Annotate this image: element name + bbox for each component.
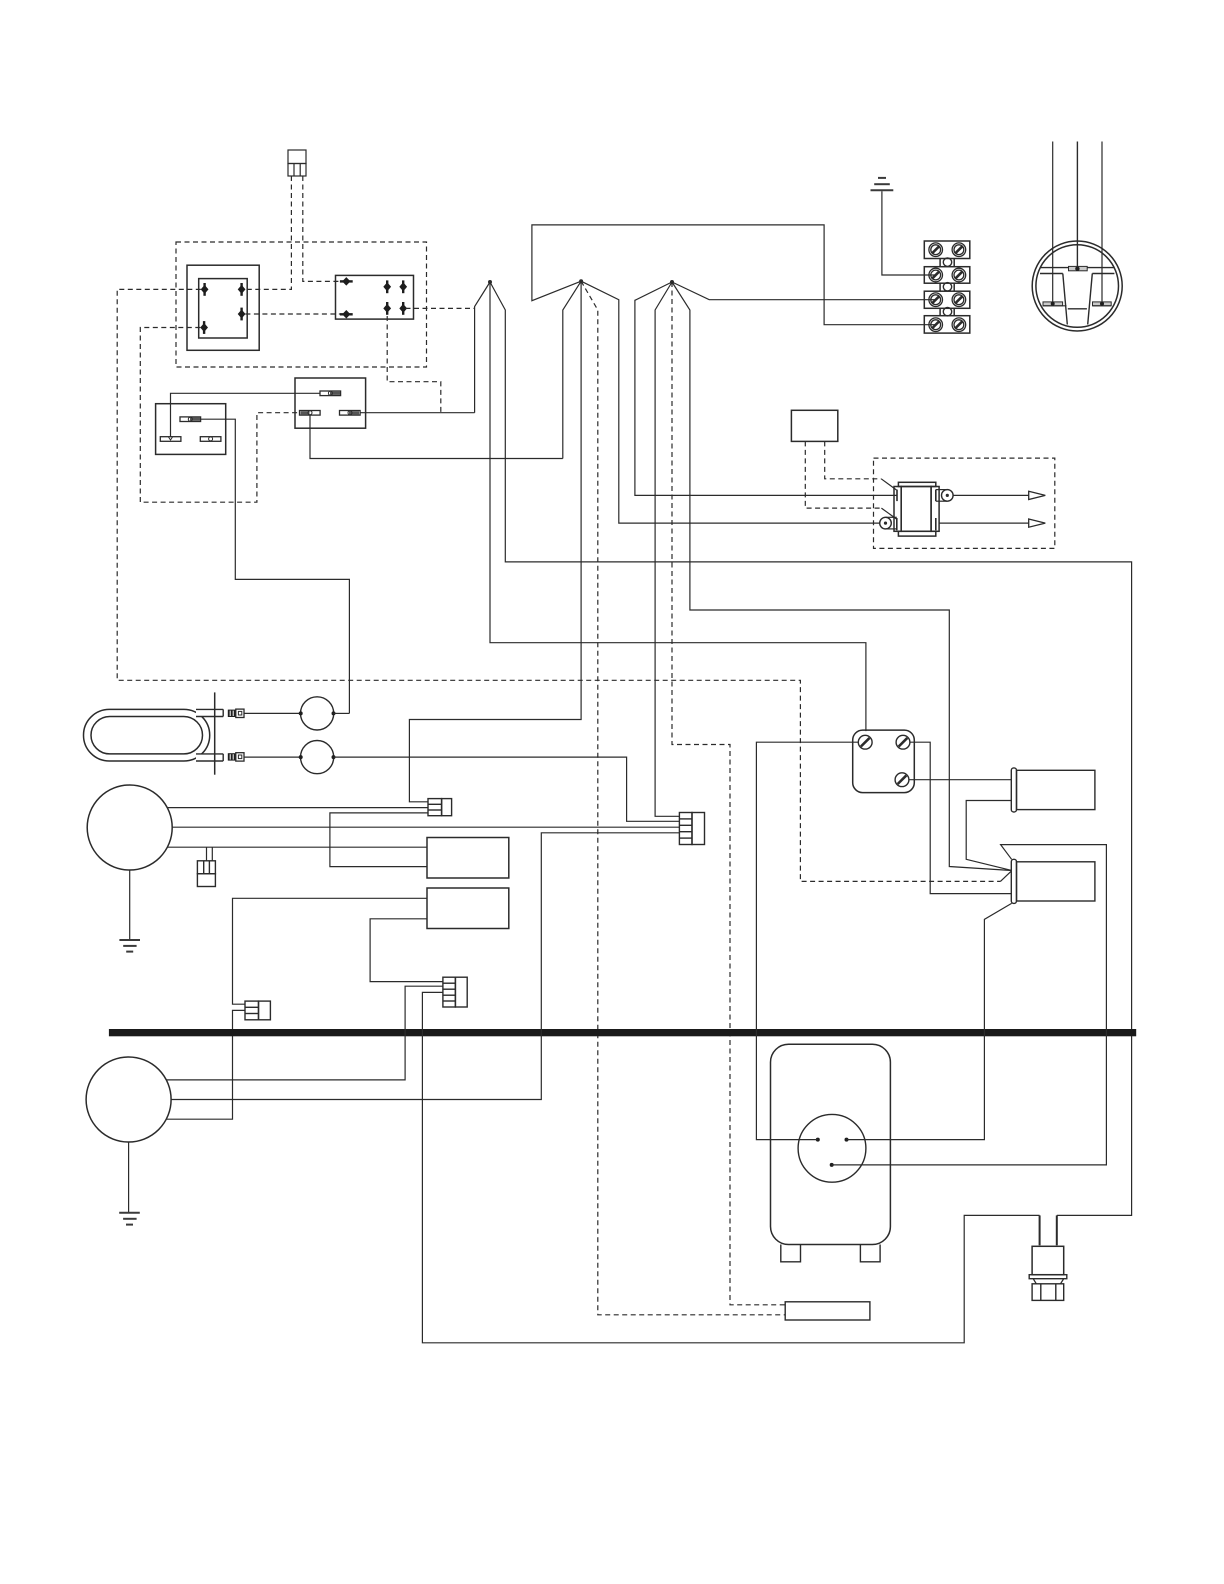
relay pin right-bottom	[935, 518, 937, 530]
dashed enclosure (ignition module group)	[176, 242, 427, 367]
diode pin TL	[202, 283, 208, 296]
ignition wire terminal dot left	[1051, 302, 1055, 306]
wire diag into relay coil pin lower	[881, 508, 896, 519]
lamp connector J4	[197, 861, 215, 887]
fuse holder F1 circle	[301, 697, 334, 730]
capacitor C2 plate	[1011, 859, 1016, 903]
wire HL1 top to connector J2 pin2	[168, 807, 428, 809]
A1 right line to charger plug	[490, 282, 1132, 1215]
spade connector upper	[228, 709, 244, 717]
starter solenoid S1	[853, 730, 915, 793]
regulator pin right-4	[400, 302, 406, 315]
wire SW2 bottom-right to harness arrow A1	[360, 412, 475, 414]
wire solenoid TR to capacitor C2 bottom	[910, 742, 1012, 893]
relay pin left-top	[896, 490, 898, 502]
ignition wire center	[1076, 142, 1078, 269]
relay output wire top	[953, 494, 1029, 496]
A2 center line to connector J2	[409, 281, 581, 802]
TB1 screw r4-left	[929, 318, 943, 332]
F2 junction dot right	[332, 755, 336, 759]
solenoid screw TR	[896, 735, 910, 749]
fuel tank foot left	[781, 1245, 801, 1262]
ignition terminal center pad	[1069, 266, 1088, 270]
TB1 screw r1-left	[929, 243, 943, 257]
connector J5 (3-pin)	[245, 1001, 270, 1020]
wire HL1 middle to connector J3 pin3	[172, 826, 679, 828]
SW1 terminal bottom-right	[200, 437, 221, 442]
regulator pin left-top	[340, 278, 353, 285]
regulator pin right-2	[400, 280, 406, 293]
capacitor C1 plate	[1011, 768, 1016, 812]
TB1 screw r3-right	[952, 293, 966, 307]
A2 dashed line to fuse link	[581, 281, 785, 1315]
connector J3 (5-pin)	[679, 813, 704, 845]
harness arrow A1 apex	[488, 280, 492, 284]
switch box SW2	[295, 378, 366, 428]
charger plug P1 flange	[1029, 1275, 1067, 1279]
TB1 spacer hole 2	[943, 283, 951, 291]
wire SW2 bottom-left to harness arrow A2	[310, 415, 563, 458]
ignition wire right	[1101, 142, 1103, 304]
wire regulator right-4 to harness arrow A1 (dashed)	[406, 307, 475, 309]
capacitor C2 body	[1017, 862, 1095, 901]
HL1 ground stem	[129, 870, 131, 940]
wire TL1 top to connector J6 pin2	[166, 986, 443, 1080]
steering wheel inner ring	[1036, 245, 1119, 328]
regulator pin right-3	[384, 302, 390, 315]
F2 junction dot left	[299, 755, 303, 759]
fuel gauge dot right	[845, 1138, 849, 1142]
diode pin TR	[239, 283, 245, 296]
wire SW1 top-center to horn circuit (down-right-down)	[201, 419, 350, 713]
diode pin BR	[239, 308, 245, 321]
A1 center line to starter solenoid	[490, 282, 866, 731]
wire M1 pin2 to relay coil (dashed)	[825, 441, 882, 478]
A3 center dashed line to fuse link	[672, 282, 785, 1305]
solenoid screw BR	[895, 773, 909, 787]
wire diode TL to capacitor C2 (long dashed left loop)	[117, 289, 1000, 881]
tail lamp TL1 circle	[86, 1057, 171, 1142]
ignition column bottom bar	[1068, 308, 1087, 310]
A2 left line from SW2	[563, 281, 581, 458]
regulator pin right-1	[384, 280, 390, 293]
wire TL1 middle to connector J3 pin4	[171, 833, 679, 1100]
terminal strip TB1	[924, 241, 970, 333]
firewall line	[214, 692, 216, 774]
ignition switch second bar left	[1040, 273, 1063, 275]
TB1 spacer hole 1	[943, 258, 951, 266]
fuel tank foot right	[860, 1245, 880, 1262]
wire solenoid BR to capacitor C1	[909, 779, 1012, 781]
wire J1 pin1 to diode module (dashed)	[244, 176, 291, 289]
relay pin left-bottom	[896, 518, 898, 530]
solenoid screw TL	[858, 735, 872, 749]
wire regulator right-3 down (dashed)	[387, 316, 441, 412]
wire diode BL to switch SW2 (dashed)	[140, 328, 299, 503]
regulator pin left-bottom	[340, 311, 353, 318]
A3 far-right line to terminal strip row3	[672, 282, 936, 300]
TB1 screw r4-right	[952, 318, 966, 332]
connector J2 (3-pin)	[428, 799, 452, 816]
SW2 terminal bottom-right	[340, 411, 361, 416]
wire G1 to terminal strip row2	[882, 191, 936, 275]
ground symbol G3	[119, 1213, 140, 1225]
harness arrow A3 apex	[670, 280, 674, 284]
regulator module U1	[336, 275, 414, 319]
TB1 spacer hole 3	[943, 308, 951, 316]
SW1 terminal top-center	[180, 417, 201, 422]
relay eyelet top-right	[936, 490, 953, 502]
wire C1 lower terminal to C2 top	[966, 801, 1011, 871]
ignition switch second bar right	[1092, 273, 1114, 275]
wire B2 upper to connector J5	[233, 898, 428, 1004]
relay K1 body	[894, 482, 939, 536]
SW2 terminal bottom-left	[300, 411, 321, 416]
headlight HL1 circle	[87, 785, 172, 870]
ground symbol G1 (top right, inverted)	[871, 178, 894, 190]
ground symbol G2	[119, 940, 140, 952]
wire gauge right to capacitor C2 bottom	[847, 903, 1012, 1139]
spade connector lower	[228, 753, 244, 761]
wire gauge left to solenoid TL	[756, 742, 858, 1139]
TB1 screw r2-left	[929, 268, 943, 282]
wire spade lower to fuse holder F2	[244, 756, 300, 758]
wire J5 pin2 to tail lamp TL1	[166, 1010, 245, 1119]
charger plug P1 prong right	[1056, 1215, 1058, 1245]
capacitor C1 body	[1017, 770, 1095, 809]
wire F2 to connector J3 pin2	[334, 757, 680, 821]
fuse holder F2 circle	[301, 741, 334, 774]
A3 far-left line to relay input	[635, 282, 897, 495]
headlamp element loop inner	[91, 717, 203, 754]
wire F1 right side	[334, 712, 350, 714]
wire J2 pin3 loop to control box B1	[330, 813, 428, 867]
relay eyelet bottom-left	[880, 517, 897, 529]
A1 left line	[475, 282, 490, 413]
switch box SW1	[156, 404, 226, 455]
TL1 ground stem	[128, 1142, 130, 1213]
F1 junction dot right	[332, 711, 336, 715]
ignition terminal right pad	[1093, 302, 1112, 306]
relay dashed enclosure	[874, 458, 1055, 548]
wire diode TR to regulator BL (dashed)	[245, 313, 340, 315]
ignition wire left	[1052, 142, 1054, 304]
charger plug P1 prong left	[1039, 1215, 1041, 1245]
relay output arrowhead top	[1029, 491, 1046, 499]
ignition column right side	[1088, 274, 1093, 325]
fuse link FL1	[785, 1302, 870, 1320]
A2 right line to relay coil	[581, 281, 880, 523]
relay output wire bottom	[939, 522, 1029, 524]
SW1 terminal bottom-left	[160, 437, 181, 442]
wire diag into relay coil pin upper	[881, 479, 896, 490]
charger plug P1 body	[1032, 1246, 1064, 1274]
headlamp loop opening mask	[196, 710, 210, 716]
F1 junction dot left	[299, 711, 303, 715]
ignition wire terminal dot right	[1100, 302, 1104, 306]
wire dashed diagonal into C2 terminal	[1000, 871, 1011, 882]
control box B1	[427, 838, 509, 879]
TB1 screw r2-right	[952, 268, 966, 282]
harness arrow A2 apex	[579, 279, 583, 283]
kill-switch connector J1	[288, 150, 306, 176]
hour-meter box M1	[791, 410, 837, 441]
ground bus bar	[109, 1029, 1136, 1036]
diode module D1	[187, 265, 259, 350]
ignition terminal left pad	[1043, 302, 1067, 306]
charger plug P1 hex nut	[1032, 1284, 1064, 1301]
fuel gauge circle	[798, 1114, 866, 1182]
relay pin right-top	[935, 490, 937, 502]
A3 right line to capacitor C2	[672, 282, 1012, 871]
SW2 terminal top-center	[320, 391, 341, 396]
fuel gauge dot left	[816, 1138, 820, 1142]
fuel gauge dot bottom	[830, 1163, 834, 1167]
diode pin BL	[201, 321, 207, 334]
wire B2 lower to connector J6 pin1	[370, 919, 443, 982]
control box B2	[427, 888, 509, 929]
wire spade upper to fuse holder F1	[244, 712, 300, 714]
wire J1 pin3 to regulator (dashed)	[303, 176, 339, 281]
fuel tank outline	[771, 1044, 891, 1244]
wire J6 pin3 loop to charger plug	[422, 992, 1039, 1342]
A2 far-left line to terminal strip row4	[532, 225, 936, 325]
wire SW1 bottom-left up to SW2 top-center	[171, 393, 321, 436]
connector J6 (5-pin)	[443, 977, 467, 1007]
TB1 screw r1-right	[952, 243, 966, 257]
A3 second line to connector J3	[655, 282, 679, 816]
wire gauge bottom to capacitor C2 top	[832, 845, 1107, 1165]
headlamp loop bottom tab	[196, 754, 223, 761]
wire M1 pin1 to relay coil (dashed)	[805, 441, 881, 508]
headlamp element loop outer	[84, 709, 210, 761]
ignition switch top bar	[1040, 267, 1114, 269]
ignition column left side	[1063, 274, 1068, 325]
TB1 screw r3-left	[929, 293, 943, 307]
wire stub to lamp connector pin1	[206, 847, 208, 861]
ignition wire terminal dot center	[1075, 267, 1079, 271]
headlamp loop top tab	[196, 709, 223, 716]
wire HL1 bottom to control box B1	[168, 846, 427, 848]
steering wheel outer ring	[1032, 241, 1122, 331]
wire stub to lamp connector pin2	[211, 847, 213, 861]
charger plug P1 collar	[1033, 1279, 1064, 1284]
relay output arrowhead bottom	[1029, 519, 1046, 527]
